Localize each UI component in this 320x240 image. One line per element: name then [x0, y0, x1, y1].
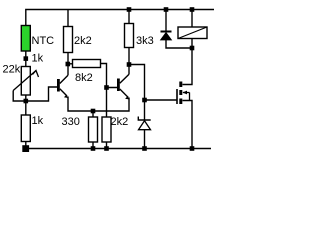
wire Q2 collector node to gate node — [129, 65, 145, 101]
junction top rail / D1 — [164, 7, 169, 12]
resistor R2 2k2 — [64, 27, 92, 53]
relay K1 — [178, 27, 207, 39]
junction top rail / R4 — [127, 7, 132, 12]
MOSFET T1 — [177, 82, 190, 105]
wire 1k bottom to rail — [25, 142, 27, 149]
junction R2/R3/Q1 collector — [66, 62, 71, 67]
svg-text:1k: 1k — [32, 53, 44, 65]
wire top rail to diode D1 — [165, 10, 167, 32]
wire R6 bottom to rail — [106, 142, 108, 149]
resistor R6 2k2 — [102, 116, 128, 142]
resistor R5 330 — [62, 116, 98, 142]
wire pot bottom to 1k top — [25, 95, 27, 115]
wire D1 bottom to drain node — [166, 40, 192, 48]
wire NTC bottom to pot top — [25, 51, 27, 67]
junction rail / R6 bottom — [104, 146, 109, 151]
resistor R1 1k — [21, 115, 43, 142]
junction rail / R5 bottom — [91, 146, 96, 151]
thermistor NTC 1k — [21, 26, 54, 65]
svg-text:330: 330 — [62, 116, 80, 128]
svg-text:NTC: NTC — [32, 35, 55, 47]
wire R3 right to Q2 base node — [101, 64, 118, 88]
wire R5 bottom to rail — [92, 142, 94, 149]
wire top rail to R4 — [128, 10, 130, 24]
wire R3 left — [68, 63, 73, 65]
wire relay bottom to drain node — [191, 39, 193, 49]
junction rail / MOSFET source — [190, 146, 195, 151]
wire top rail — [26, 10, 214, 26]
wire gate node to MOSFET gate — [145, 99, 178, 101]
diode D1 — [161, 32, 172, 41]
svg-text:2k2: 2k2 — [111, 116, 129, 128]
junction Q2 collector node — [127, 62, 132, 67]
resistor R4 3k3 — [125, 24, 154, 48]
wire gate node down to zener — [144, 100, 146, 120]
junction emitter rail / R5 — [91, 109, 96, 114]
wire R4 bottom to Q2 collector node — [128, 48, 130, 75]
junction below NTC — [24, 56, 29, 61]
wire drain node down to MOSFET drain — [183, 48, 193, 85]
wire node A to Q1 base — [26, 87, 58, 101]
wire zener bottom to rail — [144, 130, 146, 149]
junction node A pot wiper — [24, 99, 29, 104]
junction gate node — [142, 98, 147, 103]
wire bottom rail — [26, 148, 211, 150]
svg-text:1k: 1k — [32, 115, 44, 127]
junction top rail / relay — [190, 7, 195, 12]
transistor Q1 — [57, 75, 69, 98]
zener diode D2 — [138, 117, 150, 130]
transistor Q2 — [117, 74, 130, 99]
wire emitter rail — [68, 97, 129, 112]
svg-text:2k2: 2k2 — [74, 35, 92, 47]
terminal square bottom left — [22, 145, 29, 152]
wire R2 bottom to Q1 collector — [67, 53, 69, 76]
svg-text:22k: 22k — [3, 64, 21, 76]
wire top rail to R2 — [67, 10, 69, 27]
wire top rail to relay K1 — [191, 10, 193, 28]
junction drain node — [190, 46, 195, 51]
potentiometer 22k — [3, 64, 39, 102]
junction Q2 base node — [104, 85, 109, 90]
svg-text:8k2: 8k2 — [75, 72, 93, 84]
wire R5 stub — [92, 111, 94, 117]
svg-text:3k3: 3k3 — [136, 35, 154, 47]
wire Q2 base node down to R6 — [106, 88, 108, 118]
resistor R3 8k2 — [73, 60, 101, 85]
wire MOSFET source to rail — [183, 101, 193, 149]
junction rail / zener bottom — [142, 146, 147, 151]
